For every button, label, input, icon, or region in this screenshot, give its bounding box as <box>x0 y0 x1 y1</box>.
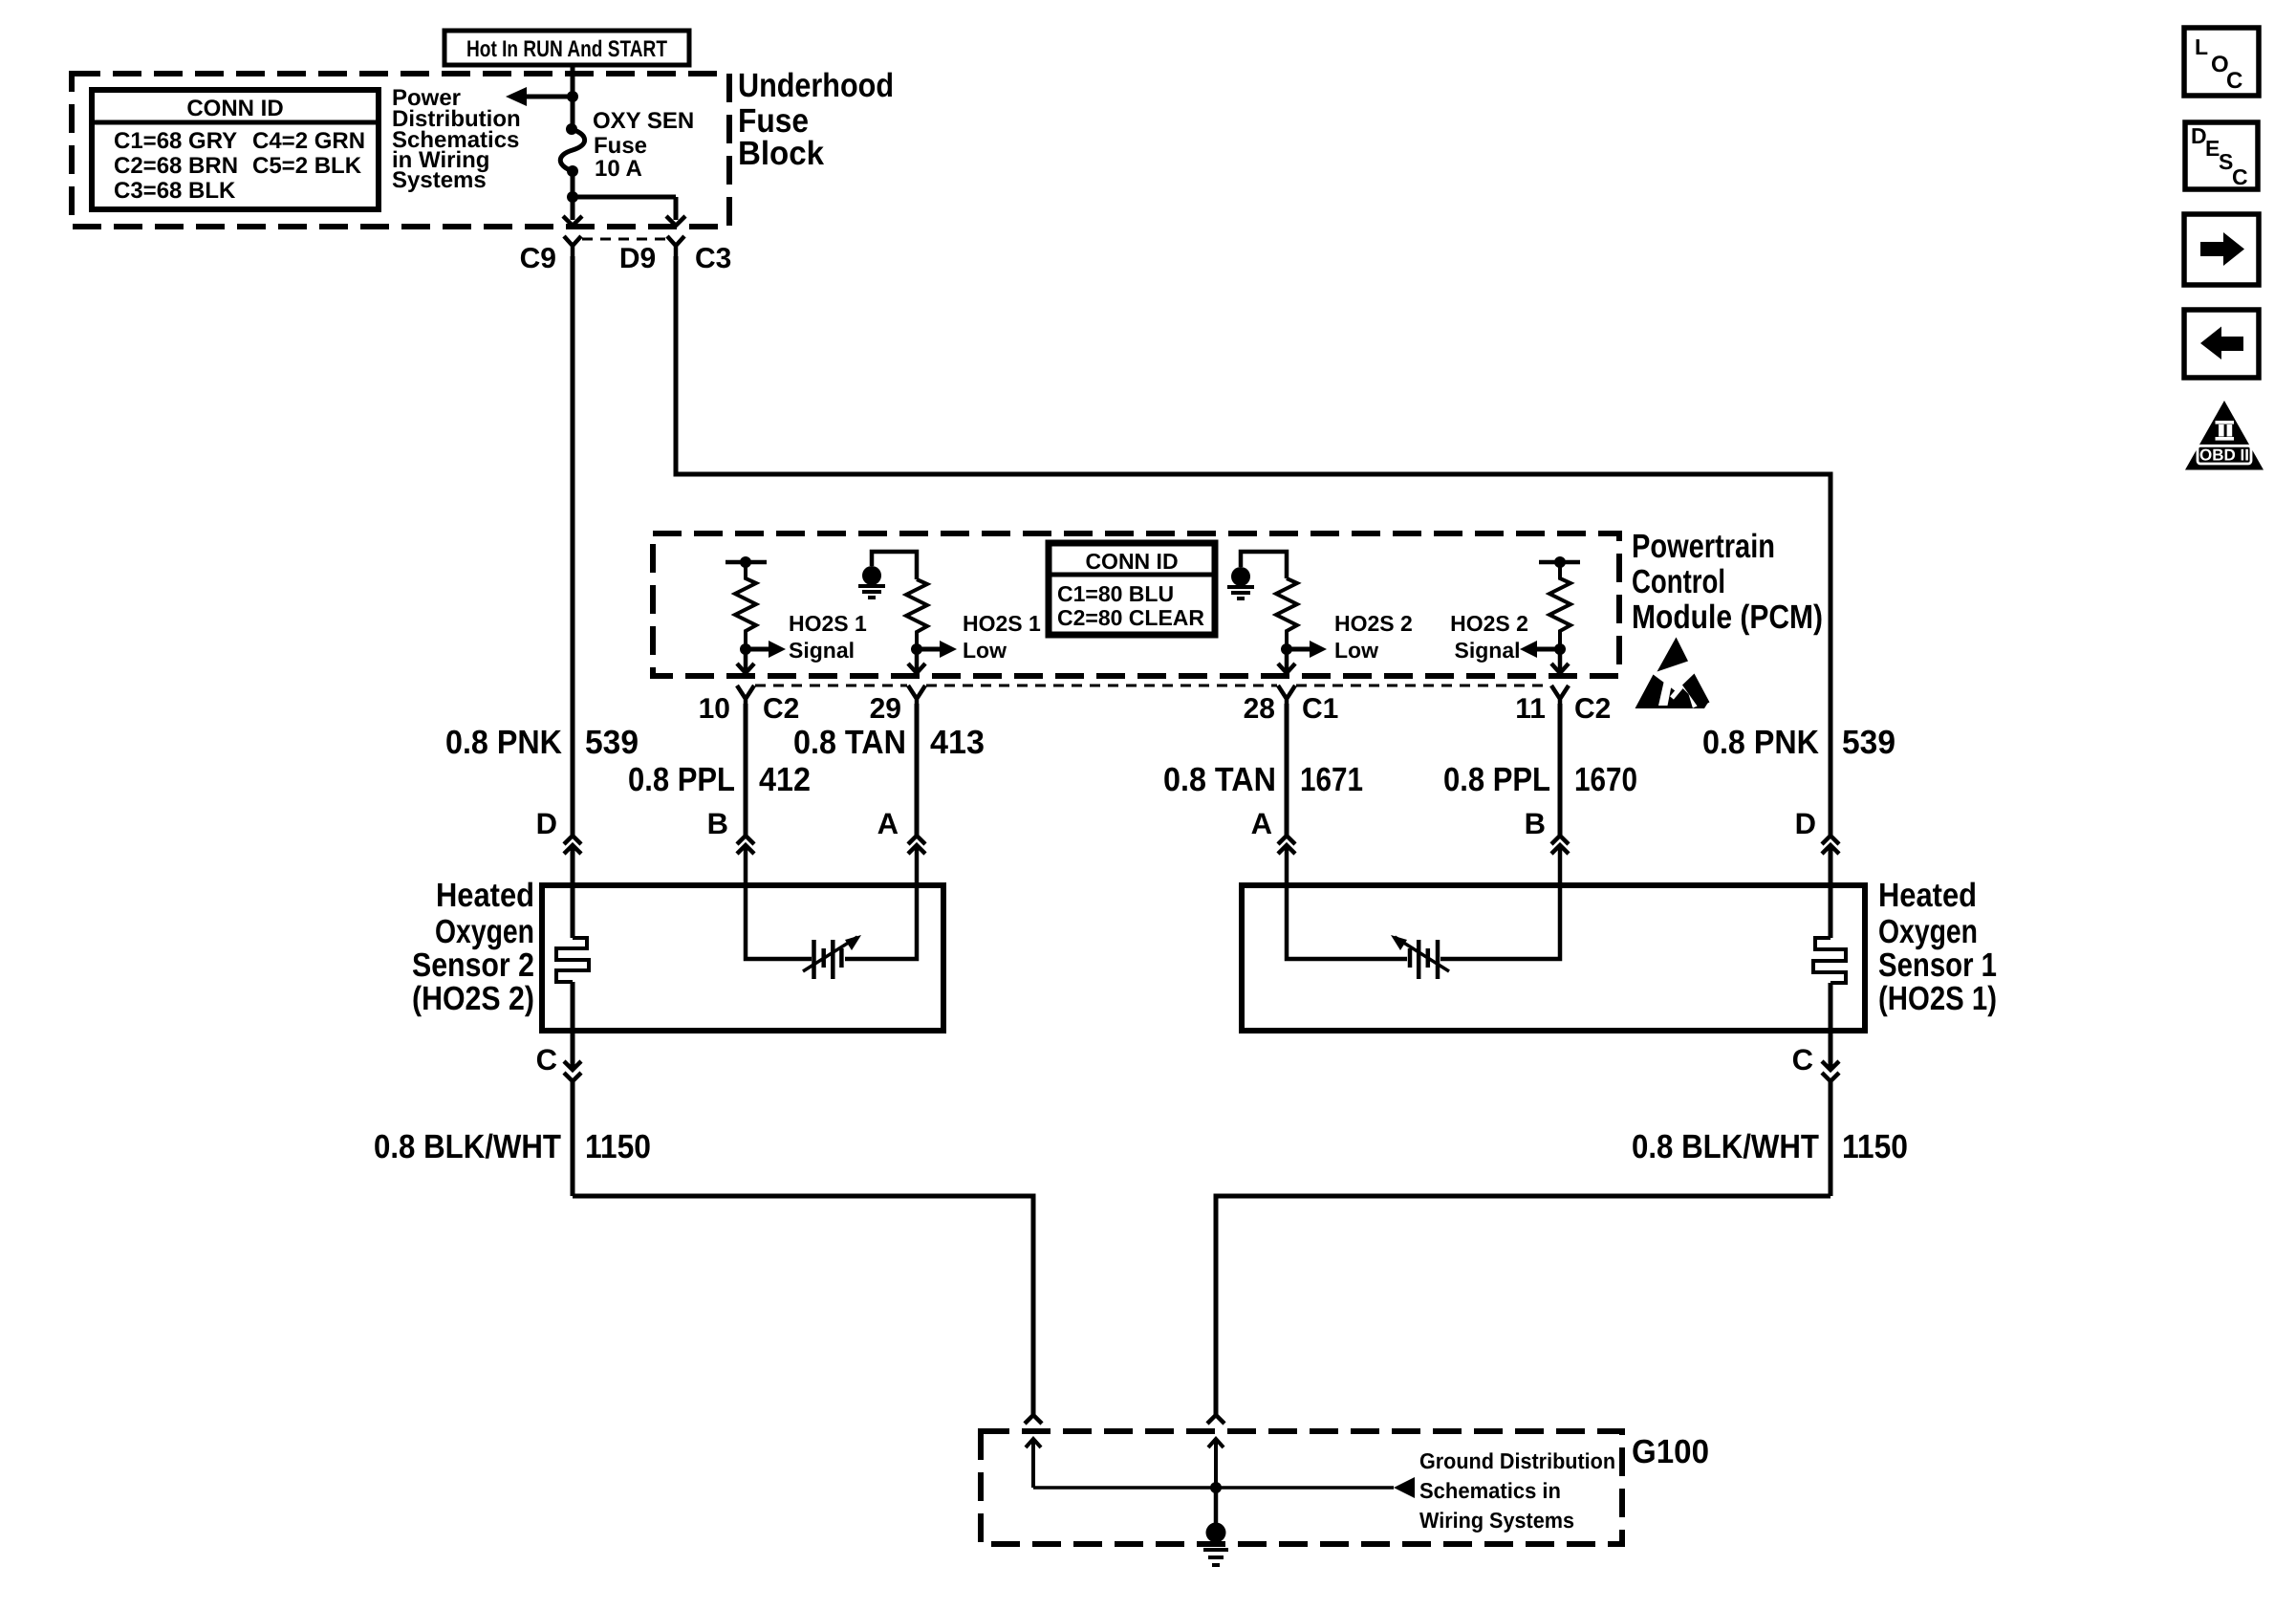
PCM connector dashed line <box>755 685 1550 687</box>
svg-text:C2=80 CLEAR: C2=80 CLEAR <box>1057 605 1204 630</box>
arrow: into C9 terminal <box>563 216 582 226</box>
wire label: 0.8 PNK 539 (left) <box>445 724 639 761</box>
ESD symbol <box>1635 638 1710 709</box>
svg-text:0.8 PPL: 0.8 PPL <box>628 761 735 798</box>
svg-text:C9: C9 <box>520 243 556 274</box>
arrow: pin 29 exit chevron <box>908 664 925 673</box>
svg-text:C: C <box>2232 164 2248 189</box>
sensing cell HO2S1 (variable source) <box>1391 935 1449 979</box>
label box: Hot In RUN And START <box>444 31 689 65</box>
wire: pin28 exit <box>1285 649 1289 671</box>
wire: pin 29 to sensor2 A <box>915 704 920 837</box>
wire: pin11 exit <box>1558 649 1563 671</box>
svg-text:CONN ID: CONN ID <box>1085 549 1178 574</box>
svg-text:413: 413 <box>930 724 985 761</box>
fuse: OXY SEN Fuse 10 A <box>560 123 584 177</box>
arrow: into C3 terminal <box>666 216 685 226</box>
connector chevrons: A left <box>908 836 925 854</box>
svg-text:OBD II: OBD II <box>2199 446 2249 465</box>
connector pin 10 (Y symbol) <box>737 685 754 708</box>
svg-text:11: 11 <box>1515 693 1546 725</box>
svg-text:B: B <box>1525 807 1546 840</box>
wire: C3 down, across top, to HO2S1 heater (0.8 PNK 539) <box>676 256 1830 837</box>
svg-text:10: 10 <box>699 693 730 725</box>
wire: pin 28 to sensor1 A <box>1285 704 1289 837</box>
wire: pin 11 to sensor1 B <box>1558 704 1563 837</box>
wire: A into HO2S1 loop <box>1287 846 1407 959</box>
HO2S1 sensor box <box>1242 885 1865 1031</box>
connector pin 29 (Y symbol) <box>908 685 925 708</box>
connector dashed line C9-D9-C3 <box>582 238 666 241</box>
wire: pin 10 to sensor2 B <box>744 704 748 837</box>
wire: B into HO2S2 loop <box>746 846 812 959</box>
wire label: 0.8 BLK/WHT 1150 (left) <box>374 1128 651 1165</box>
resistor R-low1 (pin 29, internal) <box>906 579 927 649</box>
wire: cell to A (HO2S2) <box>845 846 917 959</box>
svg-text:C1=68 GRY: C1=68 GRY <box>114 128 237 154</box>
PCM dashed box <box>653 533 1619 676</box>
svg-text:28: 28 <box>1244 693 1275 725</box>
wire: C9 down to HO2S2 heater (0.8 PNK 539) <box>571 256 575 837</box>
wire: branch to C3 <box>573 197 676 220</box>
svg-text:C3=68 BLK: C3=68 BLK <box>114 178 236 204</box>
wire label: 0.8 BLK/WHT 1150 (right) <box>1632 1128 1908 1165</box>
svg-text:0.8 TAN: 0.8 TAN <box>1163 761 1276 798</box>
svg-text:1150: 1150 <box>1842 1128 1908 1165</box>
svg-text:1150: 1150 <box>585 1128 651 1165</box>
connector chevrons: B right <box>1551 836 1569 854</box>
arrow: HO2S 2 Low <box>1287 641 1327 658</box>
svg-text:412: 412 <box>759 761 811 798</box>
G100 dashed box <box>981 1431 1622 1544</box>
svg-text:C: C <box>2226 68 2242 94</box>
icon: DESC box <box>2185 122 2258 189</box>
connector chevrons: D right <box>1822 836 1839 854</box>
svg-text:0.8 BLK/WHT: 0.8 BLK/WHT <box>374 1128 561 1165</box>
wire label: 0.8 PPL 1670 <box>1443 761 1637 798</box>
svg-text:539: 539 <box>585 724 639 761</box>
svg-text:0.8 PNK: 0.8 PNK <box>445 724 562 761</box>
wire: D into HO2S1 <box>1829 846 1833 938</box>
connector chevrons: C right (down) <box>1822 1061 1839 1081</box>
svg-text:D9: D9 <box>619 243 656 274</box>
node: ground bus junction <box>1210 1482 1222 1493</box>
arrow: pin 28 exit chevron <box>1278 664 1295 673</box>
connector pin 11 (Y symbol) <box>1551 685 1569 708</box>
svg-text:1670: 1670 <box>1574 761 1637 798</box>
node: junction fuse output <box>567 191 578 203</box>
svg-text:C5=2 BLK: C5=2 BLK <box>252 153 362 179</box>
node: junction pin10 <box>740 643 751 655</box>
node: junction pin28 <box>1281 643 1292 655</box>
HO2S2 sensor box <box>542 885 943 1031</box>
wire: left ground run to G100 <box>573 1196 1033 1415</box>
ground: PCM internal (HO2S1 low) <box>858 552 917 598</box>
svg-text:D: D <box>1795 807 1816 840</box>
connector chevrons: A right <box>1278 836 1295 854</box>
ground: PCM internal (HO2S2 low) <box>1227 552 1287 598</box>
svg-text:A: A <box>877 807 899 840</box>
wire: branch to Power Distribution (left arrow) <box>506 87 573 106</box>
svg-text:L: L <box>2195 34 2208 59</box>
heater element HO2S1 <box>1813 938 1846 983</box>
wire label: 0.8 TAN 413 <box>793 724 985 761</box>
connector chevrons: B left <box>737 836 754 854</box>
wire label: 0.8 PPL 412 <box>628 761 811 798</box>
wire: heater to C (HO2S2) <box>571 982 575 1070</box>
arrow: HO2S 2 Signal (points left) <box>1520 641 1560 658</box>
underhood fuse block dashed box <box>72 74 729 227</box>
CONN ID table (fuse block) <box>92 90 379 209</box>
heater element HO2S2 <box>556 938 589 982</box>
wire: from Hot box down to junction <box>571 65 575 128</box>
wire label: 0.8 PNK 539 (right) <box>1702 724 1895 761</box>
wire: D into HO2S2 <box>571 846 575 938</box>
svg-text:29: 29 <box>870 693 901 725</box>
ground G100 <box>1203 1523 1228 1566</box>
icon: OBD II triangle <box>2185 401 2264 470</box>
connector C3 (Y symbol) <box>667 236 684 256</box>
connector chevron: right wire at G100 <box>1207 1415 1224 1424</box>
sensing cell HO2S2 (variable source) <box>803 935 861 979</box>
svg-text:B: B <box>707 807 728 840</box>
resistor R-sig1 (pin 10 pull, internal) <box>726 556 767 649</box>
svg-text:G100: G100 <box>1632 1433 1709 1470</box>
node: junction pin29 <box>911 643 922 655</box>
connector C9 (Y symbol) <box>564 236 581 256</box>
wire: cell to B (HO2S1) <box>1440 846 1560 959</box>
icon: back arrow box <box>2184 310 2259 378</box>
arrow: left wire into ground bus <box>1026 1439 1041 1488</box>
connector chevron: left wire at G100 <box>1025 1415 1042 1424</box>
arrow: to Ground Distribution (left-pointing) <box>1394 1477 1415 1498</box>
wire: heater to C (HO2S1) <box>1829 983 1833 1070</box>
svg-text:0.8 BLK/WHT: 0.8 BLK/WHT <box>1632 1128 1819 1165</box>
svg-text:D: D <box>536 807 557 840</box>
CONN ID table (PCM) <box>1049 543 1215 635</box>
svg-text:0.8 PPL: 0.8 PPL <box>1443 761 1550 798</box>
connector pin 28 (Y symbol) <box>1278 685 1295 708</box>
svg-text:CONN ID: CONN ID <box>186 96 283 121</box>
icon: LOC box <box>2184 28 2259 96</box>
wire label: 0.8 TAN 1671 <box>1163 761 1363 798</box>
svg-text:C: C <box>536 1043 557 1077</box>
wire: ground bus <box>1033 1486 1394 1490</box>
svg-text:0.8 PNK: 0.8 PNK <box>1702 724 1819 761</box>
node: junction pin11 <box>1554 643 1566 655</box>
svg-text:C1=80 BLU: C1=80 BLU <box>1057 581 1174 606</box>
svg-text:C2: C2 <box>1574 693 1611 725</box>
wire: HO2S1 C down (0.8 BLK/WHT 1150) <box>1829 1081 1833 1196</box>
arrow: pin 10 exit chevron <box>737 664 754 673</box>
svg-text:Hot In RUN And START: Hot In RUN And START <box>466 36 667 62</box>
arrow: HO2S 1 Low <box>917 641 957 658</box>
svg-text:C2=68 BRN: C2=68 BRN <box>114 153 238 179</box>
resistor R-low2 (pin 28, internal) <box>1276 578 1297 649</box>
wire: pin10 exit <box>744 649 748 671</box>
icon: forward arrow box <box>2184 214 2259 285</box>
svg-text:1671: 1671 <box>1300 761 1363 798</box>
svg-text:539: 539 <box>1842 724 1895 761</box>
arrow: right wire into ground bus <box>1208 1439 1224 1488</box>
arrow: pin 11 exit chevron <box>1551 664 1569 673</box>
wire: fuse to C9 <box>571 171 575 220</box>
svg-text:C2: C2 <box>763 693 799 725</box>
svg-text:C4=2 GRN: C4=2 GRN <box>252 128 365 154</box>
wire: junction to ground G100 <box>1214 1488 1219 1526</box>
arrow: HO2S 1 Signal <box>746 641 786 658</box>
node: junction at fuse top feed <box>567 91 578 102</box>
svg-text:C3: C3 <box>695 243 731 274</box>
svg-text:0.8 TAN: 0.8 TAN <box>793 724 906 761</box>
connector chevrons: D left <box>564 836 581 854</box>
connector chevrons: C left (down) <box>564 1061 581 1081</box>
wire: pin29 exit <box>915 649 920 671</box>
wire: right ground run to G100 <box>1216 1196 1830 1415</box>
resistor R-sig2 (pin 11, internal) <box>1539 556 1580 649</box>
svg-text:C1: C1 <box>1302 693 1338 725</box>
svg-text:C: C <box>1792 1043 1813 1077</box>
svg-text:A: A <box>1251 807 1272 840</box>
wire: HO2S2 C down (0.8 BLK/WHT 1150) <box>571 1081 575 1196</box>
